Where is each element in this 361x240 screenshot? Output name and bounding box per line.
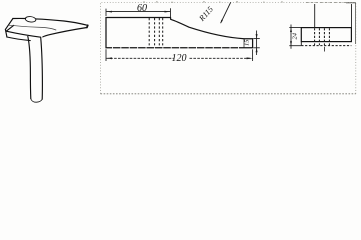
hidden line c <box>323 28 325 45</box>
arrowhead right (60) <box>165 11 171 13</box>
hidden line 2 <box>154 18 156 48</box>
head bottom edge <box>7 37 30 41</box>
head neck curve <box>43 28 87 37</box>
extension line left (120) <box>105 49 107 61</box>
side view rectangle <box>301 28 351 42</box>
projection line upper-right <box>351 4 353 28</box>
head top-face far edge <box>13 17 26 19</box>
handle bottom arc <box>31 99 42 103</box>
frame top-right darker corner <box>346 3 356 44</box>
dimension line left segment (120) <box>106 57 173 59</box>
dimension line (60) <box>106 11 170 13</box>
hidden bottom edge (side view) <box>301 45 351 47</box>
frame right edge <box>355 2 357 94</box>
extension line top (24) <box>289 27 301 29</box>
handle right edge <box>41 37 43 99</box>
hidden hole lines (side view) <box>301 28 351 45</box>
extension line right (60) <box>170 8 172 19</box>
frame top darker dashes (right half) <box>306 1 347 3</box>
head end-face top edge <box>6 25 13 31</box>
extension line top (15) <box>253 38 259 40</box>
head top-face far edge (right of hole) <box>36 19 88 25</box>
svg-text:15: 15 <box>244 39 251 46</box>
dimension 15 (face height, right of front view) <box>253 31 259 56</box>
svg-text:60: 60 <box>137 3 147 14</box>
dimension 24 (side view height) <box>289 25 301 49</box>
extension line bottom (24) <box>289 45 301 47</box>
extension line right (120) <box>252 49 254 61</box>
hidden hole lines (front view) <box>149 18 163 48</box>
arrowhead top (15) <box>256 34 258 39</box>
head end-face left edge <box>5 29 7 37</box>
dimension 120 <box>106 49 253 61</box>
hidden line 3 <box>158 18 160 48</box>
radius leader line (R115) <box>221 2 231 23</box>
arrowhead top (24) <box>290 28 292 33</box>
svg-text:120: 120 <box>172 53 187 64</box>
hidden line b <box>318 28 320 45</box>
arrowhead left (120) <box>106 57 112 59</box>
handle left edge <box>28 36 31 98</box>
centre line tick below side view <box>324 47 326 52</box>
head top-left depth edge <box>5 19 12 30</box>
extension line bottom (15) <box>253 47 259 49</box>
dimension 60 <box>106 8 171 19</box>
arrowhead left (60) <box>106 11 112 13</box>
dimension line right segment (120) <box>190 57 253 59</box>
front view outline <box>106 18 253 48</box>
hidden line a <box>314 28 316 45</box>
hidden line 1 <box>148 18 150 48</box>
extension line left (60) <box>105 9 107 16</box>
hidden line d <box>328 28 330 45</box>
bottom edge fade gaps (scan artifact) <box>112 47 240 49</box>
head front-top edge <box>6 31 40 37</box>
frame border (faint dotted scan cell) <box>101 2 356 94</box>
arrowhead bottom (15) <box>256 48 258 53</box>
head tip face <box>86 25 89 27</box>
leader arrowhead (R115) <box>221 20 223 24</box>
dimension line (15) <box>256 31 258 56</box>
arrowhead right (120) <box>247 57 253 59</box>
frame bottom edge <box>101 93 356 95</box>
face box left edge <box>243 39 245 48</box>
hidden line 4 <box>162 18 164 48</box>
head top-face front edge (faint) <box>9 25 56 30</box>
oval hole on top face <box>25 16 36 23</box>
dimension line (24) <box>290 25 292 49</box>
scan speckles <box>143 1 283 2</box>
frame left + top edges <box>101 2 356 94</box>
projection line upper-left <box>314 4 316 28</box>
svg-text:24: 24 <box>291 32 298 39</box>
side view left edge lower part <box>300 42 302 46</box>
arrowhead bottom (24) <box>290 41 292 46</box>
